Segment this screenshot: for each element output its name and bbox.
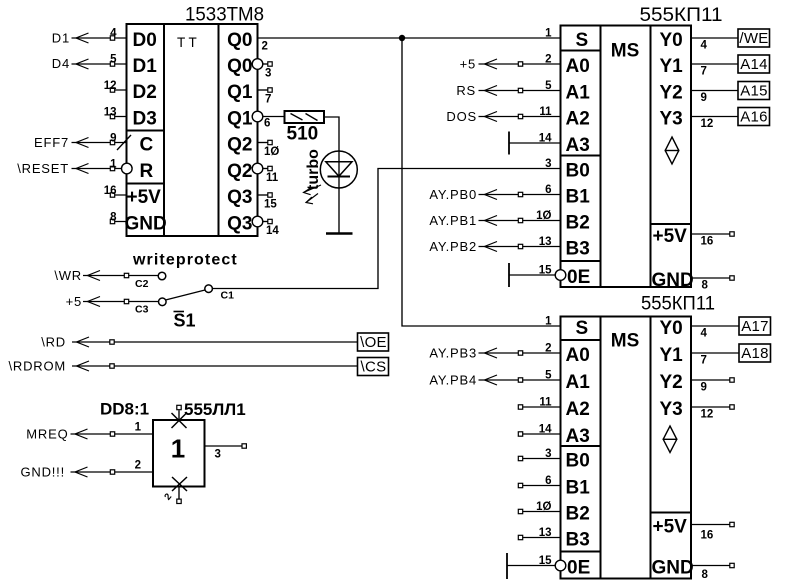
wire Y1 pin 7 to net box: [691, 63, 738, 65]
resistor 510 body: [285, 111, 325, 123]
wire junction branch to bottom S: [402, 38, 561, 326]
svg-text:B3: B3: [566, 530, 590, 551]
switch S1 lever: [166, 290, 206, 300]
svg-text:DD8:1: DD8:1: [100, 400, 149, 419]
svg-text:\RESET: \RESET: [17, 161, 69, 176]
svg-text:AY.PB4: AY.PB4: [429, 373, 477, 388]
wire Y0 pin 4 to net box: [691, 325, 739, 327]
svg-text:7: 7: [701, 66, 707, 78]
svg-text:\RDROM: \RDROM: [8, 359, 66, 374]
LED triangle: [326, 162, 352, 177]
svg-text:A2: A2: [566, 109, 590, 130]
wire pin 11 A2 bottom chip stub: [518, 406, 561, 408]
svg-text:Y3: Y3: [660, 399, 683, 420]
svg-text:A0: A0: [566, 345, 590, 366]
svg-text:\RD: \RD: [41, 335, 66, 350]
svg-text:12: 12: [701, 409, 714, 421]
svg-text:0E: 0E: [567, 558, 590, 579]
svg-text:AY.PB0: AY.PB0: [429, 187, 477, 202]
gate unused top pin crossed: [178, 410, 180, 420]
svg-text:4: 4: [701, 328, 708, 340]
svg-text:9: 9: [110, 132, 116, 144]
net box /WE: [738, 29, 770, 47]
svg-text:B2: B2: [566, 504, 590, 525]
wire gate input pin 1: [71, 433, 154, 435]
net box A15: [738, 82, 770, 100]
svg-text:8: 8: [702, 280, 709, 292]
svg-text:GND: GND: [652, 558, 694, 579]
svg-text:12: 12: [104, 80, 117, 92]
wire pin 14 A3 top chip with terminator: [509, 142, 561, 144]
wire gate output pin 3: [205, 445, 242, 447]
wire pin 15 OE bottom chip with bubble and terminator: [507, 565, 555, 567]
svg-text:16: 16: [701, 236, 714, 248]
svg-text:15: 15: [539, 555, 552, 567]
svg-text:2: 2: [545, 343, 551, 355]
svg-text:turbo: turbo: [305, 149, 322, 190]
wire pin4 D0: [72, 37, 127, 39]
pin Q3 pin15 stub: [258, 194, 268, 196]
svg-text:555КП11: 555КП11: [641, 293, 715, 315]
svg-text:Y1: Y1: [660, 56, 684, 77]
wire C1 to B0 of top chip: [212, 169, 560, 289]
wire WR to contact C2: [83, 275, 158, 277]
svg-text:C1: C1: [221, 290, 235, 302]
svg-text:\WR: \WR: [54, 268, 82, 283]
svg-text:+5V: +5V: [127, 187, 162, 208]
svg-text:\CS: \CS: [361, 359, 387, 376]
pin Q1 pin7 stub: [258, 89, 268, 91]
svg-text:9: 9: [701, 92, 707, 104]
svg-text:B1: B1: [566, 187, 591, 208]
wire +5V pin 16 bottom chip: [691, 524, 730, 526]
svg-text:7: 7: [265, 94, 271, 106]
svg-text:AY.PB1: AY.PB1: [429, 213, 477, 228]
svg-text:\OE: \OE: [360, 334, 387, 351]
three-state diamond bottom chip: [663, 426, 677, 453]
resistor power marks: [291, 114, 318, 121]
svg-text:MS: MS: [611, 41, 640, 62]
wire +5V pin 16 top chip: [691, 233, 730, 235]
svg-text:3: 3: [265, 68, 271, 80]
svg-text:14: 14: [539, 424, 552, 436]
svg-text:Y0: Y0: [660, 318, 683, 339]
wire pin12 D2: [110, 89, 127, 91]
svg-text:C2: C2: [135, 278, 149, 290]
svg-text:1: 1: [135, 422, 142, 434]
svg-text:A2: A2: [566, 399, 590, 420]
LED emission arrows: [304, 185, 322, 204]
svg-text:5: 5: [110, 54, 117, 66]
wire pin13 D3: [110, 116, 127, 118]
wire pin 1Ø B2 bottom chip stub: [518, 511, 561, 513]
svg-text:S: S: [576, 30, 589, 51]
svg-text:A0: A0: [566, 56, 590, 77]
svg-text:Q0: Q0: [227, 56, 252, 77]
wire pin 6 B1 top chip: [479, 194, 561, 196]
wire pin16 +5V: [110, 194, 127, 196]
wire Y2 pin 9 to net box: [691, 90, 738, 92]
svg-text:C3: C3: [135, 304, 149, 316]
svg-text:+5V: +5V: [653, 226, 688, 247]
gate unused bottom pin crossed: [178, 487, 180, 499]
svg-text:11: 11: [539, 397, 552, 409]
net box \CS: [358, 358, 389, 376]
svg-text:14: 14: [266, 225, 279, 237]
wire +5 to contact C3: [83, 301, 159, 303]
svg-text:B2: B2: [566, 213, 590, 234]
OR gate DD8.1 body: [153, 420, 205, 487]
svg-text:/WE: /WE: [739, 30, 768, 47]
svg-text:B3: B3: [566, 239, 590, 260]
wire pin 5 A1 top chip: [479, 90, 561, 92]
svg-text:A1: A1: [566, 372, 591, 393]
wire pin 3 B0 bottom chip stub: [518, 458, 561, 460]
svg-text:D0: D0: [133, 30, 157, 51]
pin Q3 inv pin14 bubble and stub: [252, 216, 263, 227]
svg-text:S1: S1: [174, 311, 196, 331]
svg-text:MREQ: MREQ: [26, 427, 68, 442]
svg-text:S: S: [576, 318, 589, 339]
svg-text:1Ø: 1Ø: [536, 501, 551, 513]
wire Y2 pin 9 stub bottom chip: [691, 379, 730, 381]
wire pin 15 OE top chip with bubble and terminator: [509, 274, 555, 276]
wire pin 6 B1 bottom chip stub: [518, 485, 561, 487]
IC body 555KP11 bottom: [561, 317, 692, 579]
pin Q2 inv pin11 bubble and stub: [252, 163, 263, 174]
svg-text:Y0: Y0: [660, 30, 683, 51]
svg-text:14: 14: [539, 133, 552, 145]
svg-text:GND: GND: [125, 214, 167, 235]
svg-text:3: 3: [545, 448, 551, 460]
wire RDROM to CS box: [72, 365, 358, 367]
IC body 555KP11 top: [561, 26, 692, 288]
svg-text:6: 6: [264, 118, 270, 130]
svg-text:GND!!!: GND!!!: [20, 465, 65, 480]
svg-text:MS: MS: [611, 331, 640, 352]
svg-text:510: 510: [287, 124, 319, 145]
svg-text:+5: +5: [460, 57, 476, 72]
wire pin9 C with dynamic slash: [72, 135, 132, 150]
svg-text:AY.PB2: AY.PB2: [429, 239, 477, 254]
svg-text:11: 11: [539, 106, 552, 118]
svg-text:13: 13: [539, 527, 552, 539]
svg-text:1533ТМ8: 1533ТМ8: [185, 4, 264, 26]
net box A16: [738, 108, 770, 126]
wire GND pin 8 bottom chip: [691, 565, 730, 567]
svg-text:B0: B0: [566, 161, 590, 182]
svg-text:8: 8: [110, 211, 117, 223]
wire Y3 pin 12 stub bottom chip: [691, 406, 730, 408]
svg-text:1Ø: 1Ø: [264, 146, 279, 158]
svg-text:+5V: +5V: [653, 517, 688, 538]
wire resistor to LED: [324, 117, 339, 233]
svg-text:A3: A3: [566, 426, 590, 447]
svg-text:13: 13: [104, 106, 117, 118]
svg-text:D3: D3: [133, 109, 157, 130]
wire GND pin 8 top chip: [691, 277, 730, 279]
svg-text:16: 16: [104, 185, 117, 197]
svg-text:8: 8: [702, 569, 709, 581]
svg-text:GND: GND: [652, 270, 694, 291]
wire pin1 R with bubble: [72, 168, 122, 170]
svg-text:Y3: Y3: [660, 109, 683, 130]
svg-text:A14: A14: [740, 56, 768, 73]
svg-text:AY.PB3: AY.PB3: [429, 346, 477, 361]
wire pin 2 A0 top chip: [479, 63, 561, 65]
svg-text:Y2: Y2: [660, 83, 683, 104]
wire pin 11 A2 top chip: [479, 116, 561, 118]
svg-text:Y1: Y1: [660, 345, 684, 366]
LED VD turbo circle: [320, 151, 357, 188]
svg-text:+5: +5: [66, 294, 82, 309]
svg-text:15: 15: [539, 265, 552, 277]
svg-text:4: 4: [701, 40, 708, 52]
svg-text:4: 4: [110, 28, 117, 40]
svg-text:15: 15: [264, 199, 277, 211]
net box A18: [739, 344, 771, 362]
svg-text:Q0: Q0: [227, 30, 252, 51]
wire pin 2 A0 bottom chip: [479, 352, 561, 354]
svg-text:2: 2: [135, 460, 141, 472]
svg-text:R: R: [140, 161, 154, 182]
svg-text:T T: T T: [177, 35, 197, 50]
svg-text:D4: D4: [52, 56, 70, 71]
wire Y0 pin 4 to net box: [691, 37, 738, 39]
svg-text:1: 1: [171, 434, 185, 464]
wire RD to OE box: [72, 341, 358, 343]
pin Q2 pin10 stub: [258, 142, 268, 144]
three-state diamond top chip: [665, 137, 679, 164]
wire pin 13 B3 top chip: [479, 246, 561, 248]
svg-text:2: 2: [545, 54, 551, 66]
svg-text:B1: B1: [566, 478, 591, 499]
svg-text:D2: D2: [133, 82, 157, 103]
wire Y1 pin 7 to net box: [691, 352, 739, 354]
svg-text:RS: RS: [456, 83, 476, 98]
svg-text:D1: D1: [133, 56, 158, 77]
pin Q1 inv pin6 bubble to resistor: [252, 111, 263, 122]
svg-text:Q3: Q3: [227, 214, 252, 235]
wire pin 1Ø B2 top chip: [479, 220, 561, 222]
pin Q0 inv pin3 bubble and stub: [252, 59, 263, 70]
svg-text:13: 13: [539, 236, 552, 248]
wire pin 5 A1 bottom chip: [479, 379, 561, 381]
svg-text:Q2: Q2: [227, 161, 252, 182]
svg-text:555КП11: 555КП11: [640, 4, 723, 26]
wire pin 14 A3 bottom chip stub: [518, 433, 561, 435]
svg-text:Q1: Q1: [227, 109, 253, 130]
svg-text:1Ø: 1Ø: [536, 210, 551, 222]
svg-text:16: 16: [701, 530, 714, 542]
svg-text:A3: A3: [566, 135, 590, 156]
svg-text:D1: D1: [52, 31, 70, 46]
svg-text:Q1: Q1: [227, 82, 253, 103]
ground: [326, 232, 353, 235]
wire Q0 pin2 to DD2 S with junction: [258, 37, 561, 39]
svg-text:7: 7: [701, 355, 707, 367]
svg-text:EFF7: EFF7: [34, 135, 69, 150]
svg-text:A17: A17: [741, 318, 769, 335]
svg-text:6: 6: [545, 475, 551, 487]
svg-text:C: C: [140, 135, 154, 156]
svg-text:Q3: Q3: [227, 187, 252, 208]
svg-text:9: 9: [701, 382, 707, 394]
svg-text:DOS: DOS: [446, 109, 477, 124]
svg-text:writeprotect: writeprotect: [132, 252, 238, 269]
svg-text:2: 2: [262, 41, 268, 53]
wire pin5 D1: [72, 63, 127, 65]
svg-text:5: 5: [545, 80, 552, 92]
svg-text:A15: A15: [740, 83, 768, 100]
switch contact C2: [158, 272, 166, 280]
svg-text:A18: A18: [741, 345, 769, 362]
net box A14: [738, 55, 770, 73]
LED cathode bar: [328, 176, 351, 178]
junction node: [399, 35, 405, 41]
svg-text:0E: 0E: [567, 267, 590, 288]
svg-text:Q2: Q2: [227, 135, 252, 156]
net box A17: [739, 317, 771, 335]
svg-text:5: 5: [545, 370, 552, 382]
switch contact C1: [205, 285, 213, 293]
wire pin8 GND: [110, 221, 127, 223]
wire pin 13 B3 bottom chip stub: [518, 537, 561, 539]
svg-text:1: 1: [110, 158, 117, 170]
svg-text:Y2: Y2: [660, 372, 683, 393]
svg-text:1: 1: [545, 28, 552, 40]
svg-text:6: 6: [545, 184, 551, 196]
svg-text:555ЛЛ1: 555ЛЛ1: [184, 400, 246, 419]
net box \OE: [358, 333, 389, 351]
switch contact C3: [159, 298, 167, 306]
wire Y3 pin 12 to net box: [691, 116, 738, 118]
svg-text:11: 11: [266, 172, 279, 184]
IC body 1533TM8: [127, 24, 258, 236]
svg-text:A16: A16: [740, 109, 768, 126]
svg-text:12: 12: [701, 118, 714, 130]
wire gate input pin 2: [71, 471, 154, 473]
svg-text:3: 3: [215, 449, 221, 461]
svg-text:B0: B0: [566, 451, 590, 472]
svg-text:A1: A1: [566, 83, 591, 104]
